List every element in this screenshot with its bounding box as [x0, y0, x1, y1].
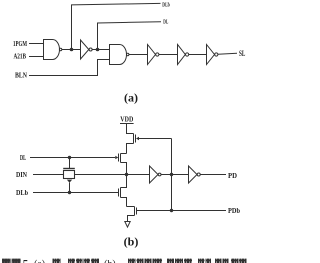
nand gate U3	[110, 45, 127, 65]
wire Q1 gate to feedback	[139, 138, 172, 140]
transistor Q2 pmos	[115, 156, 118, 160]
caption hangul word 제어	[198, 259, 211, 263]
svg-text:VDD: VDD	[120, 116, 133, 124]
wire U5 to U6	[189, 54, 207, 56]
transistor Q3 nmos	[118, 189, 120, 197]
wire Q3 drain down	[121, 198, 127, 207]
label DLb	[16, 189, 28, 197]
label 1PGM	[13, 40, 27, 48]
label (a)	[124, 91, 138, 105]
label DLb	[162, 1, 170, 8]
wire DLb	[33, 192, 119, 194]
wire U4 to U5	[159, 54, 178, 56]
inverter U2	[81, 40, 89, 59]
caption hangul word 그림 (bold)	[2, 259, 21, 263]
ground	[125, 222, 130, 228]
svg-text:DL: DL	[20, 154, 26, 162]
svg-text:SL: SL	[239, 49, 245, 58]
wire Q4 gate to PDb	[137, 210, 227, 212]
svg-text:5.: 5.	[23, 258, 32, 263]
caption hangul word 데이터	[167, 259, 192, 263]
wire U1 output	[62, 49, 81, 51]
VDD power rail	[120, 123, 134, 125]
svg-text:(b): (b)	[124, 235, 139, 249]
wire U2 output	[92, 49, 109, 51]
wire DL	[30, 157, 115, 159]
inverter U8	[189, 166, 198, 183]
caption hangul word 코드회로	[68, 259, 99, 263]
svg-text:BLN: BLN	[15, 72, 27, 80]
caption hangul word 프로그램	[128, 259, 162, 263]
caption hangul word 회로	[215, 259, 229, 263]
node DLb passgate junction	[68, 191, 70, 193]
wire Q1 drain down	[127, 144, 134, 154]
wire Q2 drain down	[121, 163, 127, 175]
inverter U4	[148, 45, 156, 65]
wire DL to passgate gate	[69, 158, 71, 169]
wire Q4 source down	[128, 216, 135, 222]
svg-text:DIN: DIN	[16, 171, 27, 179]
wire Q3 source up	[121, 175, 127, 188]
wire DIN left	[33, 174, 64, 176]
label DIN	[16, 171, 27, 179]
svg-text:PDb: PDb	[228, 207, 240, 215]
passgate T1 pmos arrow	[67, 180, 72, 183]
caption hangul word 회로2	[231, 259, 247, 263]
wire DL net	[98, 22, 162, 50]
label VDD	[120, 116, 133, 124]
label PD	[228, 172, 237, 180]
passgate T1 nmos gate bar	[63, 168, 75, 170]
svg-text:(a): (a)	[124, 91, 138, 105]
wire DLb net	[72, 3, 161, 49]
wire BLN	[29, 60, 110, 76]
node X junction	[170, 173, 172, 175]
label (b)	[124, 235, 139, 249]
wire DIN right	[75, 174, 150, 176]
caption text 5.	[23, 258, 32, 263]
label DL	[20, 154, 26, 162]
wire 1PGM input	[29, 43, 44, 45]
label A21B	[14, 52, 27, 60]
inverter U6	[207, 45, 215, 65]
node DLb junction	[70, 48, 73, 51]
caption text (a)	[34, 259, 45, 263]
wire VDD to Q1	[127, 124, 134, 134]
wire U3 output	[129, 54, 148, 56]
inverter U7	[150, 166, 159, 183]
svg-text:PD: PD	[228, 172, 237, 180]
wire U7 output	[161, 174, 189, 176]
node A junction	[125, 173, 127, 175]
svg-text:(a): (a)	[34, 259, 45, 263]
svg-text:(b): (b)	[104, 259, 116, 263]
svg-text:A21B: A21B	[14, 52, 27, 60]
svg-text:DLb: DLb	[16, 189, 28, 197]
svg-text:DL: DL	[163, 18, 168, 25]
label BLN	[15, 72, 27, 80]
nand gate U1	[44, 40, 60, 60]
passgate T1 box	[64, 171, 75, 179]
caption hangul 와	[53, 259, 61, 263]
wire SL output	[218, 53, 237, 54]
inverter U5	[178, 45, 186, 65]
caption text (b)	[104, 259, 116, 263]
transistor Q1 pmos keeper	[133, 134, 135, 144]
transistor Q4 nmos	[127, 206, 135, 208]
node DL junction	[96, 48, 99, 51]
node DL passgate junction	[68, 156, 70, 158]
svg-text:1PGM: 1PGM	[13, 40, 27, 48]
wire A21B input	[29, 56, 44, 58]
wire passgate to DLb	[69, 183, 71, 193]
label SL	[239, 49, 245, 58]
label PDb	[228, 207, 240, 215]
wire PD output	[200, 174, 226, 176]
wire feedback vertical	[171, 139, 173, 211]
label DL	[163, 18, 168, 25]
svg-text:DLb: DLb	[162, 1, 170, 8]
node PDb junction	[170, 209, 172, 211]
wire Q2 source up	[121, 153, 127, 155]
